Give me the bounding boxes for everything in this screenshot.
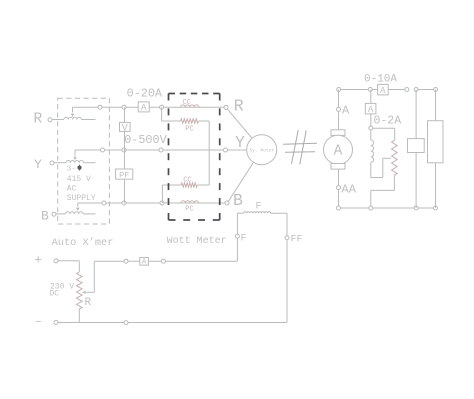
svg-text:A: A [368, 104, 374, 115]
svg-text:SUPPLY: SUPPLY [67, 194, 96, 203]
svg-text:DC: DC [50, 290, 60, 299]
svg-text:AA: AA [342, 183, 357, 197]
svg-text:A: A [141, 102, 147, 113]
svg-text:Auto X’mer: Auto X’mer [52, 237, 114, 249]
svg-text:0-20A: 0-20A [127, 86, 163, 100]
svg-text:R: R [34, 111, 43, 127]
svg-text:0-500V: 0-500V [124, 133, 167, 147]
svg-text:B: B [41, 209, 49, 224]
svg-text:FF: FF [291, 235, 303, 246]
svg-text:Wott Meter: Wott Meter [167, 236, 227, 247]
svg-text:Sy. Motor: Sy. Motor [249, 147, 274, 153]
svg-text:0-10A: 0-10A [364, 74, 397, 86]
svg-text:A: A [142, 259, 147, 267]
svg-text:PC: PC [185, 126, 193, 134]
svg-text:F: F [256, 202, 262, 213]
svg-text:415 V: 415 V [67, 175, 91, 184]
svg-text:3-: 3- [67, 166, 76, 174]
svg-text:B: B [233, 191, 243, 210]
svg-text:PF: PF [119, 171, 129, 181]
svg-text:CC: CC [183, 99, 191, 107]
svg-text:A: A [334, 144, 343, 160]
svg-text:0-2A: 0-2A [374, 115, 402, 128]
svg-text:R: R [234, 96, 244, 115]
svg-text:F: F [241, 234, 247, 245]
svg-text:A: A [380, 85, 386, 96]
svg-text:−: − [35, 317, 42, 329]
svg-text:PC: PC [185, 205, 193, 213]
svg-text:+: + [35, 254, 43, 268]
svg-text:Y: Y [34, 157, 42, 172]
svg-text:A: A [342, 104, 350, 118]
svg-text:R: R [85, 297, 92, 309]
svg-text:CC: CC [183, 177, 191, 185]
svg-text:AC: AC [67, 184, 77, 193]
svg-text:Y: Y [235, 133, 245, 152]
